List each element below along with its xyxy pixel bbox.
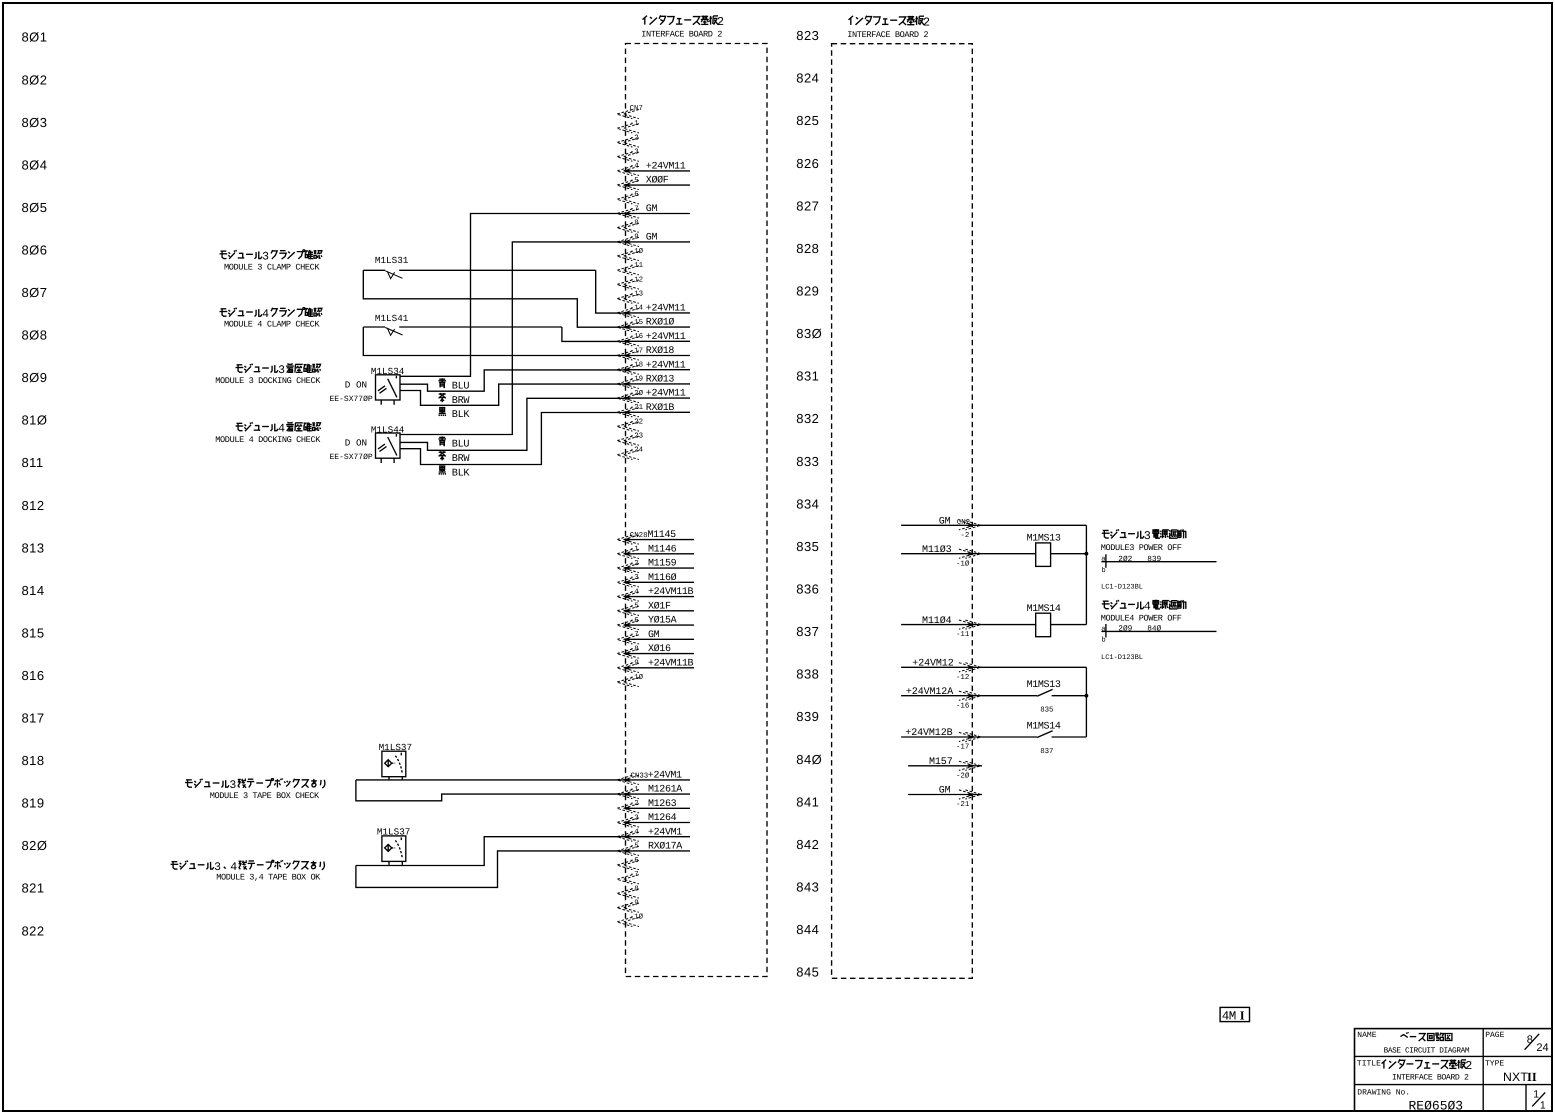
connector CN33 pin 6 bbox=[617, 857, 639, 870]
relay coil M1MS14 bbox=[1027, 604, 1061, 637]
svg-text:-5: -5 bbox=[630, 843, 639, 851]
svg-text:811: 811 bbox=[22, 455, 44, 470]
svg-text:-16: -16 bbox=[630, 333, 643, 341]
connector CN7 pin 4 signal +24VM11 bbox=[617, 162, 690, 176]
svg-text:NAME: NAME bbox=[1357, 1031, 1376, 1040]
connector CN28 pin 2 signal M1159 bbox=[617, 559, 694, 573]
right board title Japanese bbox=[849, 16, 854, 25]
svg-text:8Ø9: 8Ø9 bbox=[22, 370, 48, 385]
svg-text:MODULE 3 DOCKING CHECK: MODULE 3 DOCKING CHECK bbox=[215, 376, 321, 386]
svg-text:DRAWING No.: DRAWING No. bbox=[1357, 1089, 1410, 1098]
title block frame bbox=[1355, 1029, 1553, 1111]
svg-text:834: 834 bbox=[796, 496, 819, 511]
svg-text:M11Ø4: M11Ø4 bbox=[922, 616, 952, 627]
svg-text:817: 817 bbox=[22, 711, 45, 726]
svg-text:2: 2 bbox=[717, 15, 724, 29]
wire coil M1MS14 to bus bbox=[1051, 624, 1087, 626]
svg-text:838: 838 bbox=[796, 667, 819, 682]
svg-text:-8: -8 bbox=[630, 220, 639, 228]
svg-text:-6: -6 bbox=[630, 857, 639, 865]
svg-text:825: 825 bbox=[796, 113, 819, 128]
wire M1LS31 to CN7-14 bbox=[596, 270, 626, 313]
svg-text:EE-SX77ØP: EE-SX77ØP bbox=[330, 453, 373, 462]
connector CN7 pin 1 bbox=[617, 120, 639, 133]
svg-text:831: 831 bbox=[796, 369, 819, 384]
svg-text:RXØ17A: RXØ17A bbox=[648, 842, 682, 853]
svg-text:845: 845 bbox=[796, 965, 819, 980]
svg-text:-22: -22 bbox=[630, 418, 643, 426]
svg-text:D ON: D ON bbox=[345, 438, 367, 449]
svg-text:-2: -2 bbox=[630, 800, 639, 808]
title block TITLE cell bbox=[1357, 1059, 1472, 1083]
svg-text:REØ65Ø3: REØ65Ø3 bbox=[1409, 1099, 1464, 1114]
svg-text:BLK: BLK bbox=[452, 410, 471, 421]
svg-text:+24VM11: +24VM11 bbox=[646, 332, 686, 343]
svg-text:M1146: M1146 bbox=[648, 544, 677, 555]
svg-text:84Ø: 84Ø bbox=[1147, 625, 1161, 634]
svg-text:-8: -8 bbox=[630, 885, 639, 893]
connector CN7 pin 23 bbox=[617, 433, 643, 446]
svg-text:+24VM12: +24VM12 bbox=[912, 659, 953, 670]
svg-text:-4: -4 bbox=[630, 829, 639, 837]
svg-text:M1263: M1263 bbox=[648, 799, 677, 810]
svg-text:84Ø: 84Ø bbox=[796, 752, 822, 767]
svg-text:818: 818 bbox=[22, 753, 45, 768]
connector CN7 pin 19 signal RX013 bbox=[617, 375, 690, 389]
connector CN28 pin 5 signal X01F bbox=[617, 601, 694, 615]
wire M1LS44 common to GM CN7-9 bbox=[400, 242, 626, 435]
svg-text:GM: GM bbox=[939, 517, 951, 528]
photo sensor M1LS37 (module 3,4) bbox=[377, 826, 410, 865]
svg-text:+24VM11B: +24VM11B bbox=[648, 587, 694, 598]
svg-text:GM: GM bbox=[646, 204, 658, 215]
svg-text:8Ø8: 8Ø8 bbox=[22, 328, 48, 343]
contact cross-reference M1MS13 bbox=[1101, 554, 1216, 575]
connector CN7 pin 5 signal X00F bbox=[617, 176, 690, 190]
svg-text:-1: -1 bbox=[630, 546, 639, 554]
svg-text:-1Ø: -1Ø bbox=[630, 913, 644, 922]
wire CN2-11 to coil M1MS14 bbox=[982, 624, 1036, 626]
svg-text:827: 827 bbox=[796, 198, 819, 213]
svg-text:832: 832 bbox=[796, 411, 819, 426]
svg-text:823: 823 bbox=[796, 28, 819, 43]
svg-text:-1Ø: -1Ø bbox=[956, 559, 970, 568]
svg-text:M1MS14: M1MS14 bbox=[1027, 721, 1061, 732]
svg-text:2: 2 bbox=[1465, 1059, 1472, 1073]
svg-text:M116Ø: M116Ø bbox=[648, 573, 677, 584]
svg-text:RXØ1B: RXØ1B bbox=[646, 403, 675, 414]
photo sensor M1LS44 bbox=[330, 424, 405, 463]
svg-text:-6: -6 bbox=[630, 191, 639, 199]
sheet marker 4MI bbox=[1220, 1007, 1249, 1023]
svg-text:8Ø5: 8Ø5 bbox=[22, 200, 48, 215]
label module 3 power off Japanese bbox=[1102, 530, 1110, 538]
svg-text:3: 3 bbox=[262, 250, 269, 263]
svg-text:828: 828 bbox=[796, 241, 819, 256]
svg-text:+24VM12A: +24VM12A bbox=[906, 687, 953, 698]
svg-text:-7: -7 bbox=[630, 871, 639, 879]
connector CN33 pin 5 signal RX017A bbox=[617, 842, 690, 856]
connector CN2 pin -17 signal +24VM12B bbox=[901, 728, 982, 751]
svg-text:MODULE 3,4 TAPE BOX OK: MODULE 3,4 TAPE BOX OK bbox=[216, 872, 321, 882]
svg-text:819: 819 bbox=[22, 796, 45, 811]
svg-text:842: 842 bbox=[796, 837, 819, 852]
svg-text:-9: -9 bbox=[630, 900, 639, 908]
svg-text:833: 833 bbox=[796, 454, 819, 469]
svg-text:83Ø: 83Ø bbox=[796, 326, 822, 341]
svg-text:PAGE: PAGE bbox=[1485, 1031, 1504, 1040]
connector CN7 pin 9 signal GM bbox=[617, 233, 690, 247]
connector CN2 pin -16 signal +24VM12A bbox=[901, 687, 982, 710]
wire M1LS31 lower to CN7-15 bbox=[363, 270, 625, 327]
contact M1MS14 (NO) bbox=[982, 721, 1086, 756]
svg-text:814: 814 bbox=[22, 583, 45, 598]
connector CN33 pin 10 bbox=[617, 913, 644, 927]
svg-text:RXØ1Ø: RXØ1Ø bbox=[646, 318, 675, 329]
svg-text:LC1-D123BL: LC1-D123BL bbox=[1101, 654, 1143, 662]
svg-text:M1MS13: M1MS13 bbox=[1027, 680, 1061, 691]
svg-text:M1LS41: M1LS41 bbox=[375, 313, 409, 324]
interface board 2 (right) dashed outline bbox=[832, 44, 973, 979]
wire CN2-12 +24VM12 to contact bus bbox=[982, 666, 1086, 668]
connector CN33 pin 8 bbox=[617, 885, 639, 898]
svg-text:+24VM11: +24VM11 bbox=[646, 389, 686, 400]
svg-text:TITLE: TITLE bbox=[1357, 1060, 1381, 1069]
connector CN33 pin 2 signal M1263 bbox=[617, 799, 690, 813]
svg-text:BASE CIRCUIT DIAGRAM: BASE CIRCUIT DIAGRAM bbox=[1384, 1047, 1470, 1056]
connector CN33 pin 7 bbox=[617, 871, 639, 884]
connector CN33 pin 9 bbox=[617, 900, 639, 913]
label module 3,4 tape box ok Japanese bbox=[171, 862, 179, 869]
label module 3 tape box check Japanese bbox=[185, 780, 193, 787]
wire M1LS44 BRW to CN7-21 bbox=[400, 413, 626, 465]
label M1LS44 black wire bbox=[439, 466, 471, 479]
wire M1LS34 common to GM CN7-7 bbox=[400, 214, 626, 377]
svg-text:-5: -5 bbox=[630, 603, 639, 611]
connector CN7 pin 3 bbox=[617, 149, 639, 162]
svg-text:-5: -5 bbox=[630, 177, 639, 185]
photo sensor M1LS37 (module 3) bbox=[379, 742, 412, 780]
svg-text:-18: -18 bbox=[630, 362, 643, 370]
svg-text:-16: -16 bbox=[956, 702, 969, 710]
svg-text:8Ø2: 8Ø2 bbox=[22, 72, 48, 87]
connector CN28 pin top signal M1145 bbox=[617, 530, 694, 544]
svg-text:GM: GM bbox=[939, 786, 951, 797]
svg-text:-9: -9 bbox=[630, 234, 639, 242]
svg-text:24: 24 bbox=[1536, 1042, 1548, 1054]
svg-text:M157: M157 bbox=[929, 757, 953, 768]
bus wire vertical (contacts) bbox=[1085, 667, 1087, 737]
svg-text:BLU: BLU bbox=[452, 440, 470, 451]
svg-text:-3: -3 bbox=[630, 574, 639, 582]
svg-text:841: 841 bbox=[796, 794, 819, 809]
connector CN7 pin 6 bbox=[617, 191, 639, 204]
svg-text:II: II bbox=[1527, 1070, 1537, 1084]
label M1LS34 blue wire bbox=[438, 378, 469, 392]
svg-text:835: 835 bbox=[796, 539, 819, 554]
bus wire GM vertical (coils) bbox=[1085, 525, 1087, 624]
label M1LS34 black wire bbox=[439, 408, 471, 421]
svg-text:INTERFACE BOARD 2: INTERFACE BOARD 2 bbox=[847, 30, 928, 40]
svg-text:-19: -19 bbox=[630, 376, 643, 384]
svg-text:844: 844 bbox=[796, 922, 819, 937]
svg-text:-7: -7 bbox=[630, 631, 639, 639]
connector CN7 pin 11 bbox=[617, 262, 644, 275]
svg-text:-11: -11 bbox=[630, 262, 644, 270]
connector CN2 pin -20 signal M157 bbox=[908, 757, 982, 780]
svg-text:-1: -1 bbox=[630, 120, 639, 128]
svg-text:MODULE 4 CLAMP CHECK: MODULE 4 CLAMP CHECK bbox=[224, 320, 320, 330]
svg-text:815: 815 bbox=[22, 625, 45, 640]
svg-text:M1145: M1145 bbox=[648, 530, 677, 541]
svg-text:+24VM1: +24VM1 bbox=[648, 771, 682, 782]
svg-text:839: 839 bbox=[796, 709, 819, 724]
svg-text:-7: -7 bbox=[630, 205, 639, 213]
connector CN2 pin -10 signal M1103 bbox=[901, 545, 982, 568]
svg-text:-14: -14 bbox=[630, 305, 644, 313]
connector CN7 pin 16 signal +24VM11 bbox=[617, 332, 690, 346]
connector CN7 pin 18 signal +24VM11 bbox=[617, 360, 690, 374]
svg-text:2Ø2: 2Ø2 bbox=[1118, 555, 1132, 564]
svg-text:YØ15A: YØ15A bbox=[648, 616, 677, 627]
connector CN7 pin 15 signal RX010 bbox=[617, 318, 690, 332]
contact M1MS13 (NO) bbox=[982, 680, 1086, 715]
svg-text:BRW: BRW bbox=[452, 454, 471, 465]
connector CN7 pin 10 bbox=[617, 247, 644, 261]
svg-text:GM: GM bbox=[646, 233, 658, 244]
connector CN7 pin 2 bbox=[617, 134, 639, 147]
svg-text:826: 826 bbox=[796, 156, 819, 171]
label module 4 docking check Japanese bbox=[236, 423, 244, 430]
svg-text:-4: -4 bbox=[630, 588, 639, 596]
svg-text:839: 839 bbox=[1147, 555, 1161, 564]
label module 3 clamp check Japanese bbox=[220, 251, 228, 258]
svg-text:813: 813 bbox=[22, 540, 45, 555]
svg-text:-1Ø: -1Ø bbox=[630, 673, 644, 682]
svg-text:836: 836 bbox=[796, 582, 819, 597]
connector CN28 pin 8 signal X016 bbox=[617, 644, 694, 658]
title block NAME cell bbox=[1357, 1031, 1470, 1055]
svg-text:-2: -2 bbox=[960, 532, 969, 540]
svg-text:-3: -3 bbox=[630, 814, 639, 822]
limit switch M1LS41 bbox=[363, 313, 562, 336]
label M1LS44 brown wire bbox=[439, 451, 471, 465]
connector CN7 pin 14 signal +24VM11 bbox=[617, 304, 690, 318]
connector CN28 pin 6 signal Y015A bbox=[617, 616, 694, 630]
svg-text:82Ø: 82Ø bbox=[22, 838, 48, 853]
svg-text:-2Ø: -2Ø bbox=[630, 389, 644, 398]
svg-text:4: 4 bbox=[1144, 600, 1151, 614]
svg-text:81Ø: 81Ø bbox=[22, 413, 48, 428]
svg-text:824: 824 bbox=[796, 71, 819, 86]
label M1LS34 brown wire bbox=[439, 393, 471, 407]
svg-text:-2: -2 bbox=[630, 560, 639, 568]
svg-text:2Ø9: 2Ø9 bbox=[1118, 625, 1132, 634]
svg-text:M1264: M1264 bbox=[648, 813, 677, 824]
svg-text:MODULE3 POWER OFF: MODULE3 POWER OFF bbox=[1101, 543, 1182, 553]
contact cross-reference M1MS14 bbox=[1101, 624, 1216, 645]
svg-text:CN7: CN7 bbox=[630, 105, 643, 113]
svg-text:-2: -2 bbox=[630, 134, 639, 142]
wire M1LS37#2 to CN33-5 RX017A bbox=[356, 851, 626, 888]
connector CN7 pin 22 bbox=[617, 418, 643, 431]
svg-text:-23: -23 bbox=[630, 433, 643, 441]
interface board 2 (left) dashed outline bbox=[626, 44, 768, 977]
svg-text:INTERFACE BOARD 2: INTERFACE BOARD 2 bbox=[641, 30, 722, 40]
junction coil bus bbox=[1085, 552, 1089, 556]
svg-text:-17: -17 bbox=[956, 744, 969, 752]
left board title Japanese bbox=[643, 16, 648, 25]
svg-text:GM: GM bbox=[648, 630, 660, 641]
wire M1LS37#2 to CN33-4 +24VM1 bbox=[356, 837, 626, 866]
svg-text:829: 829 bbox=[796, 284, 819, 299]
svg-text:8Ø1: 8Ø1 bbox=[22, 30, 48, 45]
connector CN28 pin 7 signal GM bbox=[617, 630, 694, 644]
svg-text:a: a bbox=[1101, 625, 1105, 633]
label module 4 power off Japanese bbox=[1102, 601, 1110, 609]
svg-text:1: 1 bbox=[1540, 1100, 1546, 1112]
wire M1LS34 BRW to CN7-19 bbox=[400, 384, 626, 405]
svg-text:4: 4 bbox=[278, 423, 285, 436]
connector CN28 pin 4 signal +24VM11B bbox=[617, 587, 694, 601]
connector CN7 top contact bbox=[617, 110, 639, 119]
connector CN7 pin 17 signal RX018 bbox=[617, 346, 690, 360]
wire M1LS34 BLU to CN7-18 bbox=[400, 370, 626, 391]
svg-text:-15: -15 bbox=[630, 319, 643, 327]
svg-text:843: 843 bbox=[796, 880, 819, 895]
title block sheet 1/1 bbox=[1532, 1088, 1546, 1111]
connector CN33 pin 3 signal M1264 bbox=[617, 813, 690, 827]
junction contact bus bbox=[1085, 694, 1089, 698]
svg-text:-1: -1 bbox=[630, 786, 639, 794]
svg-text:a: a bbox=[1101, 556, 1105, 564]
svg-text:M1261A: M1261A bbox=[648, 785, 682, 796]
svg-text:M1159: M1159 bbox=[648, 559, 677, 570]
svg-text:8Ø4: 8Ø4 bbox=[22, 157, 48, 172]
svg-text:-24: -24 bbox=[630, 447, 644, 455]
svg-text:1: 1 bbox=[1533, 1088, 1539, 1100]
svg-text:-6: -6 bbox=[630, 617, 639, 625]
connector CN28 pin 9 signal +24VM11B bbox=[617, 658, 694, 672]
svg-text:-21: -21 bbox=[956, 801, 970, 809]
connector CN33 pin 1 signal M1261A bbox=[617, 785, 690, 799]
connector CN33 pin top signal +24VM1 bbox=[617, 771, 690, 785]
svg-text:-11: -11 bbox=[956, 631, 970, 639]
connector CN2 pin -12 signal +24VM12 bbox=[901, 659, 982, 682]
wire M1LS37 to CN33 top +24VM1 bbox=[356, 779, 626, 781]
connector CN2 pin -11 signal M1104 bbox=[901, 616, 982, 639]
wire M1LS37 to CN33-1 M1261A bbox=[356, 780, 626, 801]
wire M1LS41 to CN7-16 bbox=[562, 327, 626, 341]
svg-text:+24VM12B: +24VM12B bbox=[905, 728, 952, 739]
svg-text:816: 816 bbox=[22, 668, 45, 683]
svg-text:LC1-D123BL: LC1-D123BL bbox=[1101, 583, 1143, 591]
connector CN2 pin -2 signal GM bbox=[901, 517, 982, 540]
connector CN28 pin 10 bbox=[617, 673, 644, 687]
svg-text:I: I bbox=[1240, 1009, 1245, 1023]
svg-text:XØØF: XØØF bbox=[646, 176, 669, 187]
svg-text:+24VM11: +24VM11 bbox=[646, 162, 686, 173]
svg-text:MODULE4 POWER OFF: MODULE4 POWER OFF bbox=[1101, 614, 1182, 624]
svg-text:TYPE: TYPE bbox=[1485, 1060, 1504, 1069]
svg-text:835: 835 bbox=[1040, 707, 1053, 715]
connector CN28 pin 3 signal M1160 bbox=[617, 573, 694, 587]
label M1LS44 blue wire bbox=[438, 436, 469, 450]
svg-text:+24VM11: +24VM11 bbox=[646, 360, 686, 371]
svg-text:822: 822 bbox=[22, 923, 45, 938]
photo sensor M1LS34 bbox=[330, 366, 405, 405]
svg-text:837: 837 bbox=[1040, 748, 1053, 756]
svg-text:BLK: BLK bbox=[452, 469, 471, 480]
wire coil M1MS13 to bus bbox=[1051, 553, 1087, 555]
title block DRAWING cell bbox=[1357, 1089, 1463, 1114]
svg-text:RXØ18: RXØ18 bbox=[646, 346, 675, 357]
wire CN2-2 GM to bus bbox=[982, 524, 1086, 526]
svg-text:-12: -12 bbox=[630, 276, 643, 284]
svg-text:-13: -13 bbox=[630, 291, 643, 299]
svg-text:2: 2 bbox=[923, 15, 930, 29]
label module 4 clamp check Japanese bbox=[220, 309, 228, 316]
svg-text:XØ16: XØ16 bbox=[648, 644, 671, 655]
svg-text:M11Ø3: M11Ø3 bbox=[922, 545, 952, 556]
svg-text:-8: -8 bbox=[630, 645, 639, 653]
svg-text:b: b bbox=[1102, 566, 1106, 575]
svg-text:-1Ø: -1Ø bbox=[630, 247, 644, 256]
svg-text:+24VM1: +24VM1 bbox=[648, 827, 682, 838]
svg-text:-21: -21 bbox=[630, 404, 644, 412]
title block TYPE cell bbox=[1485, 1060, 1537, 1085]
svg-text:M1LS31: M1LS31 bbox=[375, 255, 409, 266]
svg-text:-3: -3 bbox=[630, 149, 639, 157]
svg-text:-17: -17 bbox=[630, 347, 643, 355]
svg-text:821: 821 bbox=[22, 881, 45, 896]
limit switch M1LS31 bbox=[363, 255, 595, 278]
svg-text:D ON: D ON bbox=[345, 379, 367, 390]
svg-text:MODULE 4 DOCKING CHECK: MODULE 4 DOCKING CHECK bbox=[215, 435, 321, 445]
connector CN2 pin -21 signal GM bbox=[908, 786, 982, 809]
svg-text:4M: 4M bbox=[1222, 1010, 1236, 1024]
connector CN7 pin 12 bbox=[617, 276, 643, 289]
svg-text:-2Ø: -2Ø bbox=[956, 771, 970, 780]
connector CN28 pin 1 signal M1146 bbox=[617, 544, 694, 558]
svg-text:MODULE 3 CLAMP CHECK: MODULE 3 CLAMP CHECK bbox=[224, 262, 320, 272]
label module 3 docking check Japanese bbox=[236, 365, 244, 372]
connector CN7 pin 21 signal RX01B bbox=[617, 403, 690, 417]
svg-text:MODULE 3 TAPE BOX CHECK: MODULE 3 TAPE BOX CHECK bbox=[210, 791, 320, 801]
svg-text:b: b bbox=[1102, 636, 1106, 645]
connector CN7 pin 13 bbox=[617, 291, 643, 304]
connector CN33 pin 4 signal +24VM1 bbox=[617, 827, 690, 841]
connector CN7 pin 7 signal GM bbox=[617, 204, 690, 218]
title block PAGE cell bbox=[1485, 1031, 1548, 1054]
svg-text:3: 3 bbox=[1144, 529, 1151, 543]
svg-text:837: 837 bbox=[796, 624, 819, 639]
svg-text:8Ø7: 8Ø7 bbox=[22, 285, 48, 300]
svg-text:EE-SX77ØP: EE-SX77ØP bbox=[330, 395, 373, 404]
svg-text:812: 812 bbox=[22, 498, 45, 513]
svg-text:8Ø6: 8Ø6 bbox=[22, 242, 48, 257]
svg-text:+24VM11: +24VM11 bbox=[646, 304, 686, 315]
wire CN2-10 to coil M1MS13 bbox=[982, 553, 1036, 555]
relay coil M1MS13 bbox=[1027, 533, 1061, 566]
svg-text:8Ø3: 8Ø3 bbox=[22, 115, 48, 130]
svg-text:-12: -12 bbox=[956, 674, 969, 682]
svg-text:INTERFACE BOARD 2: INTERFACE BOARD 2 bbox=[1392, 1074, 1469, 1083]
svg-text:-9: -9 bbox=[630, 660, 639, 668]
connector CN7 pin 8 bbox=[617, 220, 639, 233]
wire M1LS44 BLU to CN7-20 bbox=[400, 398, 626, 450]
connector CN7 pin 20 signal +24VM11 bbox=[617, 389, 690, 403]
